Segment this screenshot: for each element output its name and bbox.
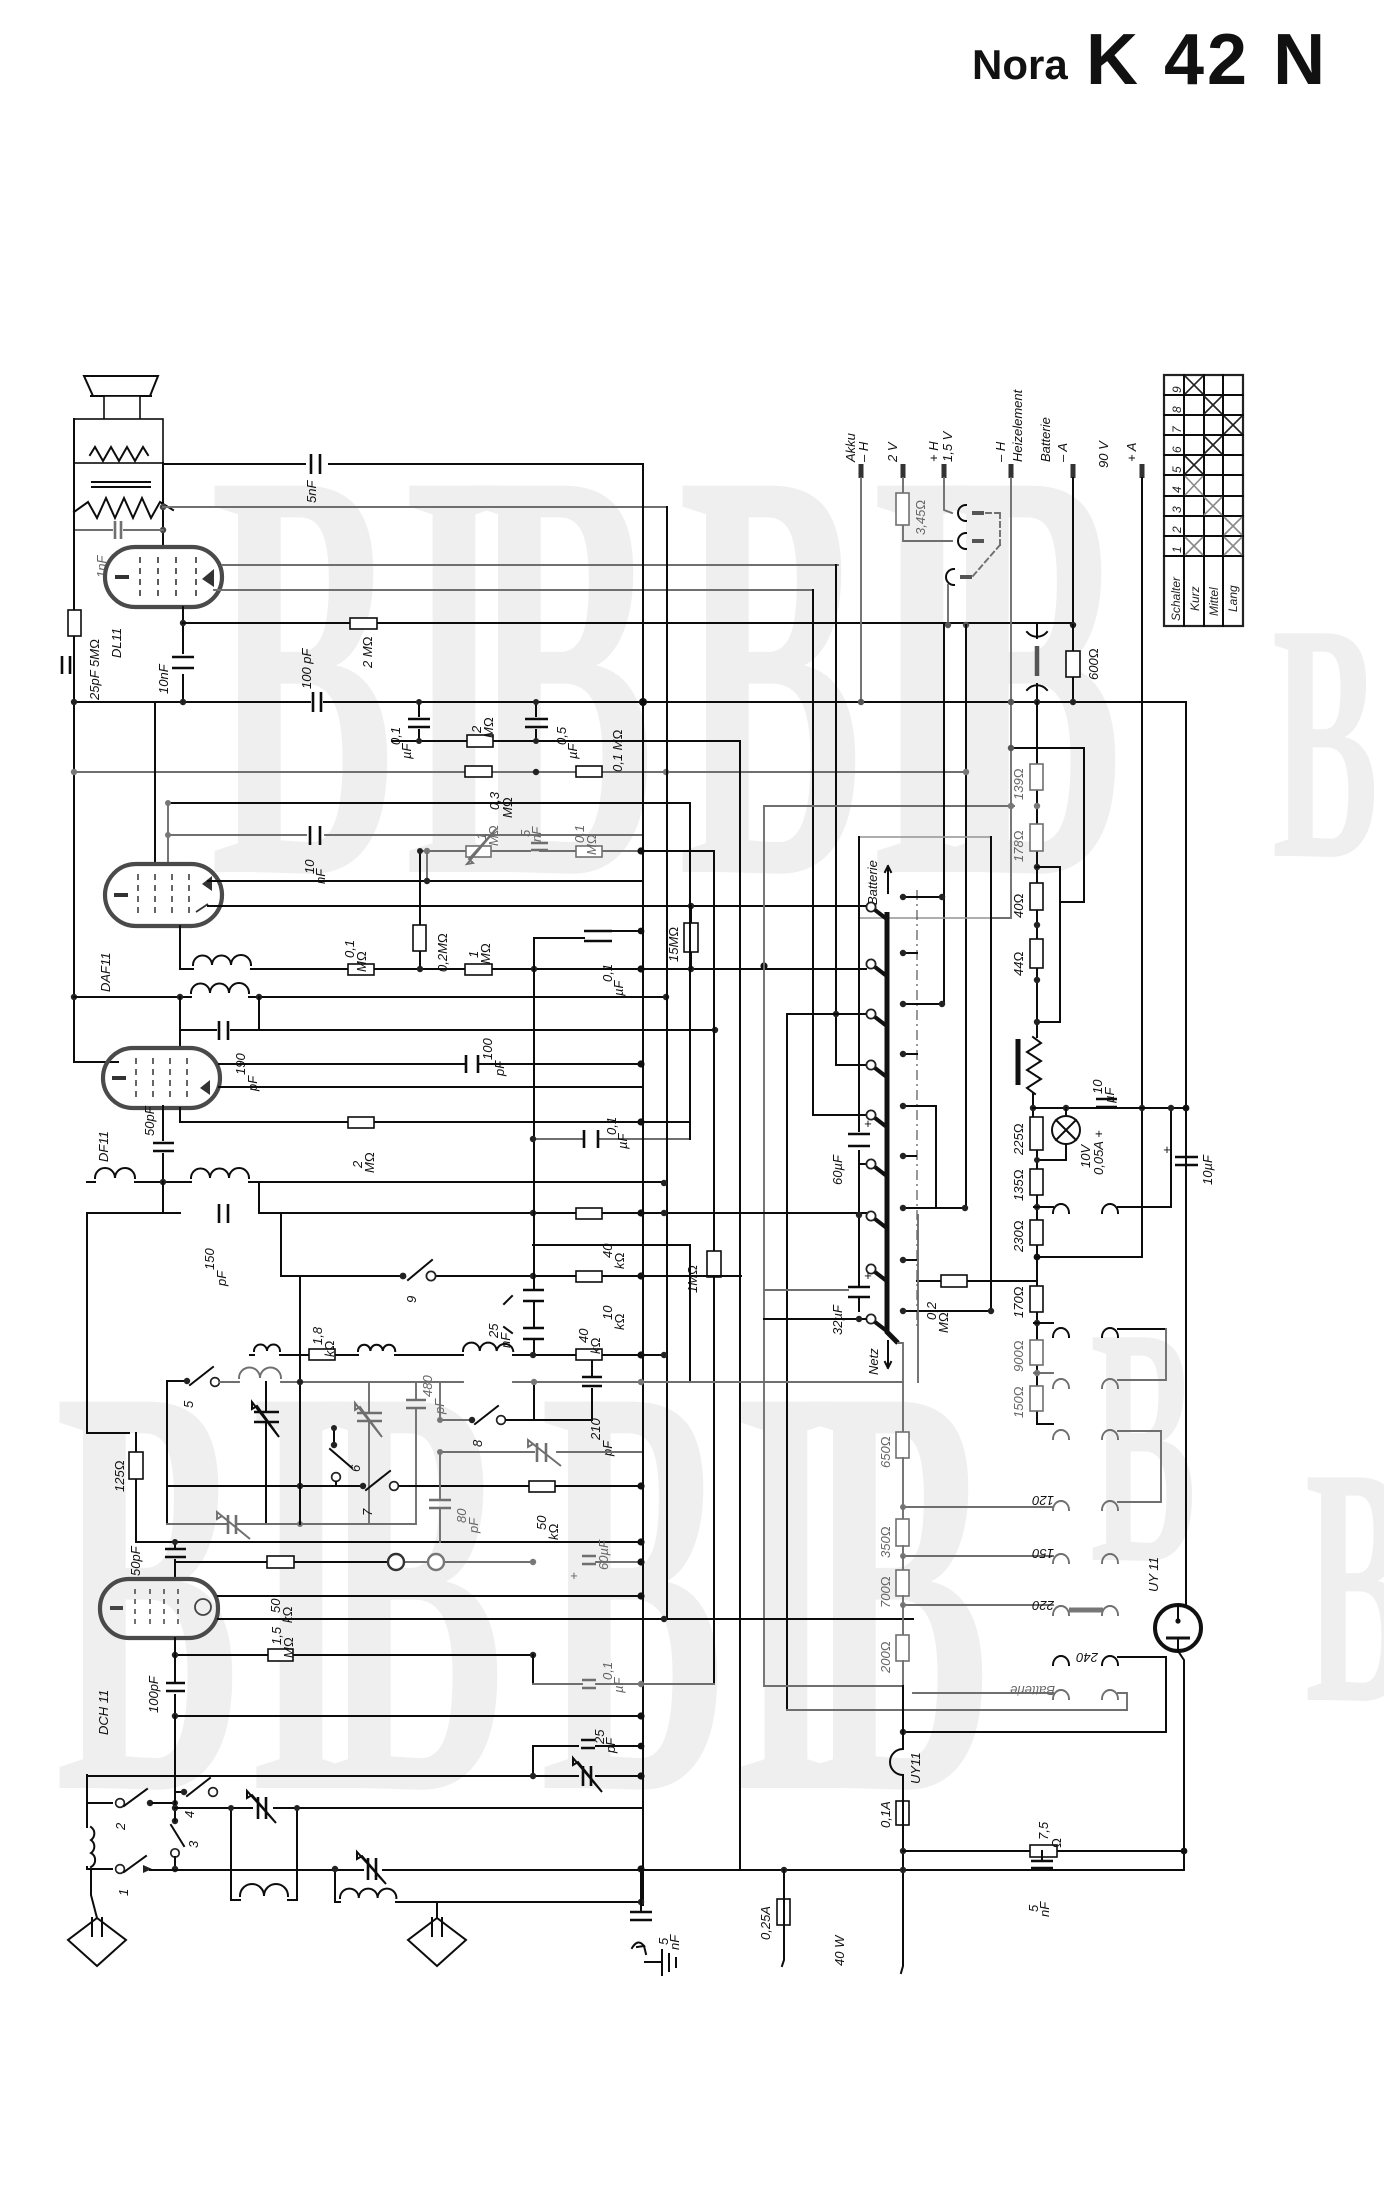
- svg-text:+ H: + H: [926, 441, 941, 462]
- throw contact 2: [903, 952, 917, 954]
- tube DAF11: [98, 864, 222, 992]
- resistor 230Ohm: [1011, 1220, 1043, 1253]
- trimmer capacitor (y1452 gray): [528, 1440, 561, 1466]
- svg-text:50pF: 50pF: [128, 1545, 143, 1576]
- wire H y1213 AVC line: [87, 1212, 866, 1214]
- node: [1070, 699, 1076, 705]
- node: [639, 698, 647, 706]
- node: [637, 1272, 644, 1279]
- svg-text:120: 120: [1032, 1493, 1054, 1508]
- throw contact 6: [903, 1155, 916, 1157]
- svg-text:Lang: Lang: [1226, 585, 1240, 612]
- svg-text:40 W: 40 W: [832, 1934, 847, 1966]
- wire dashed link: [972, 513, 1000, 577]
- svg-text:B: B: [1090, 1258, 1197, 1634]
- svg-text:0,1A: 0,1A: [878, 1801, 893, 1828]
- selector arc L8: [1053, 1656, 1069, 1665]
- selector arc R2: [1102, 1328, 1166, 1337]
- resistor 0,1MOhm (y851): [572, 825, 602, 857]
- node: [533, 769, 539, 775]
- svg-text:600Ω: 600Ω: [1086, 648, 1101, 680]
- capacitor 60uF (y1562): [570, 1539, 641, 1583]
- label Batterie with arrow: [865, 860, 891, 905]
- selector arc L3: [1034, 1373, 1069, 1388]
- node: [1139, 1105, 1145, 1111]
- svg-text:Netz: Netz: [866, 1348, 881, 1375]
- wire left rail x74: [74, 463, 118, 1062]
- clip contact 2: [958, 533, 984, 549]
- switch contact 6 (vertical): [330, 1425, 363, 1486]
- wire y702 corner down x1186: [1185, 702, 1187, 1605]
- svg-text:240: 240: [1076, 1650, 1099, 1665]
- clip contact 1: [958, 505, 984, 521]
- wire lamp row y1108: [1033, 1107, 1186, 1109]
- wire tuned line y1808: [175, 1807, 641, 1809]
- capacitor 10nF: [156, 654, 196, 694]
- wire rail x667: [666, 507, 668, 1619]
- node: [637, 1772, 644, 1779]
- svg-text:K 42 N: K 42 N: [1086, 20, 1328, 100]
- node: [963, 622, 969, 628]
- wire rail x740: [739, 742, 741, 1870]
- svg-text:100pF: 100pF: [146, 1675, 161, 1713]
- node: [424, 848, 430, 854]
- svg-text:4: 4: [1170, 486, 1184, 493]
- wire rail x533: [533, 938, 535, 1354]
- capacitor 100pF (y1064): [466, 1038, 507, 1077]
- capacitor 5nF (y851): [518, 826, 548, 850]
- capacitor 0,1uF (y1139): [584, 1117, 630, 1149]
- wire gray y1524: [167, 1523, 415, 1525]
- wire y1562 pickup line: [175, 1561, 388, 1563]
- wire rail x167: [166, 1381, 168, 1524]
- svg-text:– H: – H: [993, 441, 1008, 463]
- node: [712, 1027, 718, 1033]
- arrow to chassis: [632, 1942, 646, 1954]
- svg-text:100 pF: 100 pF: [299, 647, 314, 689]
- node: [856, 1316, 862, 1322]
- node: [1030, 1105, 1036, 1111]
- resistor 5MOhm (vertical, in left rail): [68, 610, 102, 701]
- switch wafer contact 7: [866, 1211, 888, 1229]
- wire speaker to DL11 anode rail: [74, 419, 163, 547]
- wire rail x966: [965, 625, 967, 1208]
- wire rail x991: [990, 837, 992, 1311]
- node: [1008, 745, 1014, 751]
- svg-text:3: 3: [1170, 506, 1184, 513]
- node: [637, 1209, 644, 1216]
- resistor 3,45Ohm: [896, 493, 928, 535]
- inductor (osc coil 2): [358, 1345, 395, 1351]
- svg-text:– A: – A: [1055, 443, 1070, 463]
- svg-text:+: +: [1163, 1142, 1171, 1157]
- capacitor 5nF (bottom): [630, 1905, 682, 1950]
- capacitor 50pF (x175): [128, 1539, 186, 1579]
- svg-text:6: 6: [1170, 446, 1184, 453]
- node: [172, 1652, 178, 1658]
- node: [530, 1273, 536, 1279]
- node: [297, 1521, 303, 1527]
- capacitor 5nF (speaker line): [304, 453, 328, 503]
- svg-text:Nora: Nora: [972, 41, 1068, 88]
- wire jog pot to y881: [426, 851, 428, 881]
- node: [530, 1773, 536, 1779]
- wire +A feed y1257: [1037, 1256, 1142, 1258]
- svg-text:9: 9: [1170, 386, 1184, 393]
- inductor (DAF11 cathode coil): [193, 955, 251, 965]
- svg-text:700Ω: 700Ω: [878, 1576, 893, 1608]
- svg-text:60µF: 60µF: [830, 1154, 845, 1185]
- wire DF11 screen line y1064: [219, 1063, 641, 1065]
- wire rail x690: [689, 803, 691, 1139]
- capacitor 210pF: [534, 1361, 615, 1457]
- node: [637, 1592, 644, 1599]
- switch contact 7: [360, 1471, 399, 1516]
- inductor (antenna coil vertical): [91, 1827, 95, 1867]
- node: [71, 994, 77, 1000]
- node: [637, 1482, 644, 1489]
- svg-text:+: +: [864, 1268, 872, 1283]
- throw contact 7: [903, 1207, 965, 1209]
- node: [530, 1352, 536, 1358]
- wire DF11 top feed: [179, 1030, 181, 1048]
- node: [638, 1899, 644, 1905]
- svg-text:9: 9: [404, 1296, 419, 1303]
- svg-text:220: 220: [1032, 1598, 1055, 1613]
- svg-text:Kurz: Kurz: [1188, 586, 1202, 611]
- capacitor 60uF (x859): [830, 1116, 872, 1185]
- wire y1486 line: [167, 1485, 641, 1487]
- resistor 1MOhm (vertical x714): [685, 1251, 721, 1293]
- resistor 50kOhm (y1486): [529, 1481, 561, 1540]
- svg-text:7: 7: [360, 1508, 375, 1516]
- svg-text:2: 2: [113, 1822, 128, 1831]
- resistor 170Ohm: [1011, 1286, 1043, 1318]
- node: [1008, 803, 1014, 809]
- node: [1034, 699, 1040, 705]
- node: [637, 965, 644, 972]
- svg-text:Batterie: Batterie: [865, 860, 880, 905]
- capacitor 25pF (y1746): [533, 1729, 644, 1754]
- trimmer capacitor (osc, series y1776): [533, 1746, 602, 1792]
- node: [900, 1867, 906, 1873]
- resistor 900Ohm: [1011, 1340, 1043, 1372]
- node: [637, 1118, 644, 1125]
- svg-text:150Ω: 150Ω: [1011, 1386, 1026, 1418]
- tank circuit 2: [332, 1866, 641, 1902]
- svg-text:B: B: [1305, 1398, 1384, 1774]
- antenna symbol 1: [68, 1869, 126, 1966]
- node: [1034, 864, 1040, 870]
- wire y1732: [903, 1731, 1166, 1733]
- resistor 1,8kOhm (y1355): [309, 1326, 337, 1360]
- svg-text:135Ω: 135Ω: [1011, 1169, 1026, 1201]
- node: [688, 903, 694, 909]
- node: [177, 994, 183, 1000]
- svg-text:3: 3: [186, 1840, 201, 1848]
- svg-text:0,1 MΩ: 0,1 MΩ: [610, 729, 625, 772]
- inductor (osc coil 3): [463, 1343, 513, 1351]
- svg-text:350Ω: 350Ω: [878, 1526, 893, 1558]
- wire rail x836: [836, 565, 866, 1065]
- capacitor 0,1uF (y702-y741): [388, 699, 430, 759]
- svg-text:5: 5: [181, 1400, 196, 1408]
- svg-text:25pF 5MΩ: 25pF 5MΩ: [87, 639, 102, 701]
- node: [1070, 622, 1076, 628]
- throw contact 3: [903, 1003, 942, 1005]
- capacitor 480pF (gray): [406, 1375, 447, 1524]
- wire rail x944 lower: [943, 625, 945, 1004]
- svg-text:40Ω: 40Ω: [1011, 894, 1026, 918]
- selector arc R9: [1102, 1690, 1127, 1710]
- node: [530, 1652, 536, 1658]
- resistor 139Ohm: [1011, 764, 1043, 800]
- clip contact 3: [946, 569, 972, 585]
- resistor 50kOhm (y1562): [267, 1556, 295, 1623]
- fuse 0,25A: [758, 1870, 790, 1966]
- svg-text:125Ω: 125Ω: [112, 1460, 127, 1492]
- wire band coil row y1355: [250, 1354, 664, 1356]
- capacitor 150pF (y1213): [202, 1204, 229, 1287]
- svg-text:170Ω: 170Ω: [1011, 1286, 1026, 1318]
- node: [1034, 1254, 1041, 1261]
- battery terminal +H 1,5V: [926, 430, 955, 513]
- capacitor 100pF (y702): [299, 647, 321, 712]
- wire jog x533 to 0,1uF line: [532, 1655, 534, 1684]
- inductor (IF coil): [191, 1168, 249, 1178]
- wire H8 y772: [74, 771, 966, 773]
- wire circle5 feed: [813, 1114, 866, 1116]
- svg-text:B: B: [1272, 554, 1379, 930]
- node: [833, 1011, 839, 1017]
- switch contact 5: [167, 1367, 219, 1408]
- inductor (DF11 grid coil): [191, 983, 249, 993]
- trimmer capacitor (tank1): [247, 1791, 276, 1823]
- node: [663, 994, 669, 1000]
- band switch table Schalter/Kurz/Mittel/Lang: [1164, 375, 1243, 626]
- wire DCH11 line y1619: [218, 1618, 913, 1620]
- svg-text:5: 5: [1170, 466, 1184, 473]
- tube DL11: [105, 547, 222, 658]
- switch wafer contact 5: [866, 1110, 888, 1128]
- wire y1542: [136, 1541, 641, 1543]
- svg-text:139Ω: 139Ω: [1011, 768, 1026, 800]
- selector arc L7: [903, 1605, 1069, 1615]
- svg-text:Schalter: Schalter: [1169, 576, 1183, 621]
- antenna symbol 2: [408, 1902, 466, 1966]
- selector arc R5: [1102, 1431, 1161, 1510]
- wire thick vertical x300: [299, 1276, 301, 1524]
- resistor 1,5MOhm (y1655): [268, 1626, 296, 1661]
- wire x641 to ground: [640, 1869, 642, 1905]
- svg-text:10nF: 10nF: [156, 663, 171, 694]
- selector arc R3: [1102, 1329, 1166, 1388]
- capacitor 0,1uF (y1684 gray): [533, 1662, 714, 1693]
- resistor 2MOhm (y623): [350, 618, 377, 669]
- capacitor 10uF (lamp): [1090, 1079, 1117, 1107]
- wire pot line y851: [420, 850, 641, 852]
- node: [530, 1210, 536, 1216]
- wire DF11 grid coil line y997: [74, 996, 666, 998]
- node: [637, 847, 644, 854]
- switch wafer contact 2: [866, 959, 888, 977]
- wire rail x859: [858, 837, 860, 1311]
- selector arc R8: [1102, 1656, 1166, 1732]
- node: [256, 994, 262, 1000]
- wire y1775 long: [87, 1775, 641, 1777]
- svg-text:DAF11: DAF11: [98, 953, 113, 993]
- node: [661, 1352, 667, 1358]
- svg-text:5nF: 5nF: [304, 480, 319, 503]
- wire H11 y835 10nF line: [168, 834, 643, 836]
- loudspeaker: [74, 376, 163, 463]
- node: [1034, 1370, 1040, 1376]
- wire H1 anode line y464: [163, 463, 643, 465]
- node: [1034, 1204, 1040, 1210]
- inductor (ant coupling coil): [95, 1168, 135, 1178]
- node: [900, 1504, 906, 1510]
- resistor 10kOhm (y1276): [576, 1271, 627, 1330]
- node: [661, 1180, 667, 1186]
- trimmer capacitor (gray): [355, 1382, 382, 1524]
- svg-text:1MΩ: 1MΩ: [685, 1265, 700, 1293]
- wire H10 y806: [764, 805, 1014, 807]
- trimmer capacitor (osc padder black): [252, 1382, 279, 1524]
- resistor 1MOhm (y969): [465, 943, 493, 975]
- svg-text:15MΩ: 15MΩ: [666, 927, 681, 962]
- selector arc L2: [1034, 1323, 1069, 1337]
- tank circuit 1: [228, 1805, 300, 1900]
- switch wafer contact 9: [866, 1314, 888, 1332]
- output jack (x1037): [1027, 625, 1047, 702]
- wire DL11 grid down: [182, 607, 184, 702]
- node: [160, 527, 166, 533]
- svg-text:0,05A +: 0,05A +: [1091, 1130, 1106, 1175]
- resistor 125Ohm (x136 vertical): [112, 1433, 143, 1542]
- battery terminal 2V: [885, 441, 952, 541]
- svg-text:UY11: UY11: [908, 1752, 923, 1784]
- selector arc L4: [1053, 1430, 1069, 1439]
- battery terminal Akku -H: [843, 433, 871, 702]
- resistor 0,1MOhm (y969): [342, 940, 374, 975]
- switch contact 2: [87, 1775, 178, 1831]
- switch wafer contact 6: [859, 1159, 888, 1177]
- node: [160, 1179, 166, 1185]
- voltage plug 220: [1069, 1608, 1103, 1613]
- throw contact 9: [903, 1310, 991, 1312]
- svg-text:Heizelement: Heizelement: [1010, 388, 1025, 462]
- title Nora K 42 N: [972, 20, 1328, 100]
- wire y1716: [175, 1715, 641, 1717]
- node: [1008, 699, 1014, 705]
- wire H18 y1014: [787, 1013, 866, 1015]
- wire H13 y881 DAF11 diode line: [208, 880, 641, 882]
- bypass loop 40/44: [1037, 867, 1060, 1022]
- selector arc R4: [1102, 1430, 1161, 1439]
- wire H5 y623 grid line: [183, 622, 1073, 624]
- node: [160, 504, 166, 510]
- svg-text:8: 8: [470, 1439, 485, 1447]
- selector arc L9: [913, 1690, 1069, 1699]
- svg-text:B: B: [470, 346, 655, 1000]
- svg-text:0,2MΩ: 0,2MΩ: [435, 933, 450, 972]
- node: [637, 1712, 644, 1719]
- node: [297, 1483, 303, 1489]
- node: [945, 622, 951, 628]
- switch contact 4: [175, 1778, 217, 1818]
- node: [1034, 1320, 1040, 1326]
- wire y1182 IF line: [87, 1181, 259, 1183]
- ground symbol: [645, 1950, 676, 1975]
- wire x903 lower: [901, 1686, 903, 1973]
- resistor 2MOhm (y741): [467, 717, 496, 747]
- throw contact 8: [903, 1259, 916, 1261]
- switch wafer contact 4: [866, 1060, 888, 1078]
- throw contact 5: [903, 1106, 936, 1208]
- fuse 0,1A: [878, 1801, 909, 1828]
- resistor 15MOhm (vertical x691): [666, 906, 698, 969]
- node: [172, 1866, 178, 1872]
- node: [531, 966, 537, 972]
- svg-text:UY 11: UY 11: [1146, 1557, 1161, 1592]
- node: [1034, 922, 1040, 928]
- node: [637, 1558, 644, 1565]
- node: [858, 699, 864, 705]
- svg-text:900Ω: 900Ω: [1011, 1340, 1026, 1372]
- wire y1245: [533, 1245, 690, 1381]
- battery terminal +A: [1124, 443, 1142, 1257]
- node: [1034, 977, 1040, 983]
- node: [1063, 1105, 1069, 1111]
- label Netz with arrow: [866, 1341, 891, 1375]
- wire gray osc line y1452: [440, 1451, 641, 1453]
- node: [856, 1212, 862, 1218]
- capacitor 10nF (y835): [302, 826, 328, 884]
- svg-text:B: B: [320, 1262, 505, 1916]
- wire rail x714 with 1MOhm: [713, 851, 715, 1684]
- selector arc L5: [903, 1501, 1069, 1510]
- capacitor 190pF (across DF11 grid coil): [180, 997, 718, 1092]
- resistor 44Ohm: [1011, 939, 1043, 976]
- node: [661, 1210, 667, 1216]
- svg-text:Batterie: Batterie: [1038, 417, 1053, 462]
- resistor 350Ohm: [878, 1507, 909, 1558]
- capacitor 100pF (x175): [146, 1638, 185, 1716]
- node: [1183, 1105, 1190, 1112]
- switch wafer contact 3: [866, 1009, 888, 1027]
- svg-text:150: 150: [1032, 1546, 1054, 1561]
- wire rail x813: [812, 590, 814, 1115]
- svg-text:50pF: 50pF: [142, 1105, 157, 1136]
- trimmer capacitor (series y1869): [357, 1852, 386, 1884]
- switch contact 1: [87, 1856, 152, 1896]
- capacitor 0,5uF (y702-y741): [525, 699, 580, 759]
- node: [963, 769, 969, 775]
- wire H7 y741: [392, 740, 740, 742]
- wire jog 281: [281, 1213, 300, 1276]
- Batterie switch box: [859, 837, 991, 918]
- svg-text:Batterie: Batterie: [1010, 1683, 1055, 1698]
- switch mechanical link (dash-dot): [916, 890, 918, 1330]
- node: [1168, 1105, 1174, 1111]
- node: [71, 699, 77, 705]
- resistor 40kOhm (y1213): [576, 1208, 627, 1269]
- battery terminal Batterie -A: [1038, 417, 1073, 625]
- node: [637, 1351, 644, 1358]
- selector arc R1: [1102, 1204, 1171, 1213]
- wire left rail x87: [87, 1213, 129, 1433]
- capacitor 5nF (psu): [1026, 1851, 1053, 1917]
